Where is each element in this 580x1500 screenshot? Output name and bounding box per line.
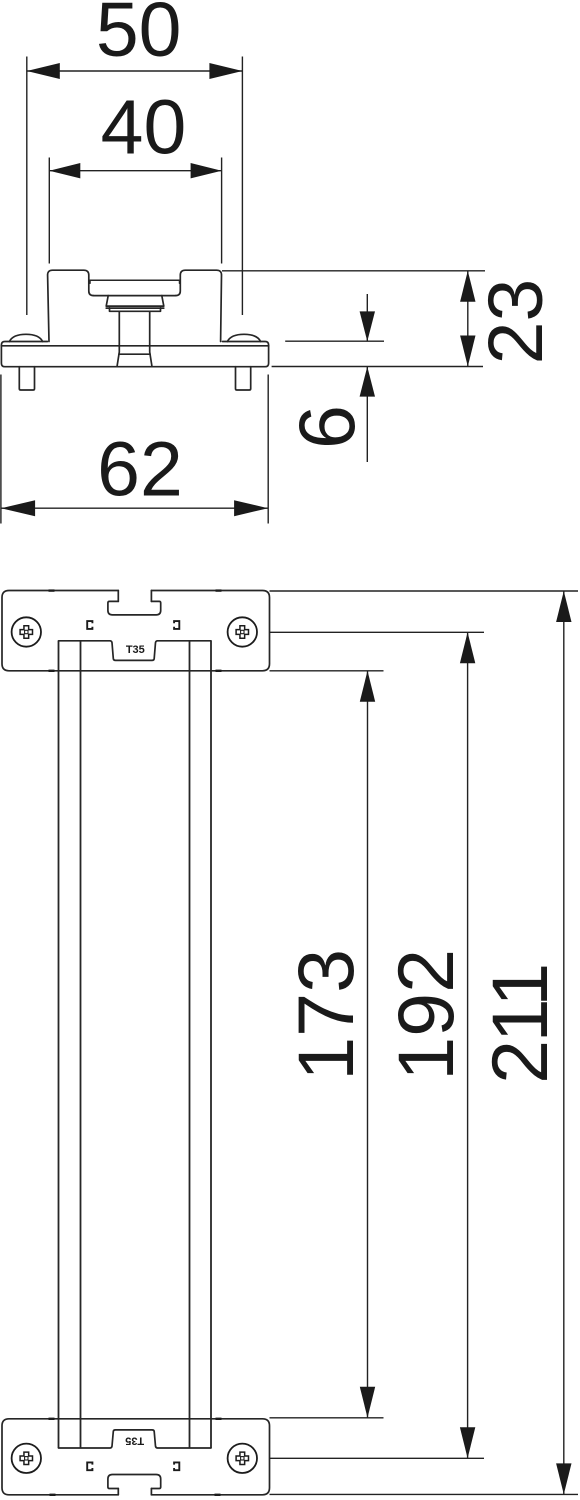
ext line 192 bottom (270, 1457, 485, 1459)
channel top edge line (89, 280, 179, 283)
dim line 211 (563, 591, 565, 1494)
tab recess (108, 601, 161, 615)
dim line 40 (49, 170, 221, 172)
dim line 50 (27, 70, 243, 72)
ext line 50 right (241, 57, 243, 316)
ext line 211 top (270, 590, 579, 592)
base plate outline (1, 342, 268, 367)
tab recess bottom (108, 1475, 161, 1489)
arrowhead 62 right (234, 500, 268, 516)
top plate outline (gap in top edge for tab neck) (2, 591, 270, 671)
svg-text:23: 23 (473, 279, 559, 365)
tab neck lines (118, 591, 151, 602)
svg-text:211: 211 (475, 965, 564, 1083)
svg-text:6: 6 (282, 405, 371, 449)
dim line 62 (1, 507, 268, 509)
arrowhead 173 top (360, 671, 375, 702)
hat cutout line with trapezoid dip (59, 641, 212, 661)
stem (117, 311, 152, 366)
arrowhead 23 bottom (460, 336, 475, 367)
screw right (228, 617, 257, 646)
svg-text:40: 40 (101, 85, 187, 171)
channel floor (94, 295, 176, 297)
rail right inner fold line (189, 641, 191, 1448)
bracket mark bottom left (87, 1462, 92, 1470)
arrowhead 50 left (27, 63, 60, 79)
svg-text:50: 50 (96, 0, 182, 73)
svg-text:173: 173 (281, 949, 370, 1081)
ext line 211 bottom (270, 1493, 579, 1495)
ext line 50 left (26, 57, 28, 316)
dim line 173 (367, 671, 369, 1418)
screw dome right (227, 334, 260, 341)
right leg (236, 367, 251, 390)
left leg (19, 367, 34, 390)
left hump (48, 270, 94, 341)
arrowhead 40 right (191, 163, 222, 178)
arrowhead 173 bottom (360, 1387, 375, 1418)
plate top surface line (1, 345, 268, 347)
dim line 23 (467, 271, 469, 367)
screw bottom right (228, 1444, 257, 1473)
ext line 40 left (48, 158, 50, 264)
ext line 23/6 bottom (272, 366, 483, 368)
dim line 192 (467, 632, 469, 1458)
ext line 192 top (270, 631, 485, 633)
arrowhead 6 bottom (points up) (360, 367, 375, 397)
bracket mark bottom right (174, 1462, 179, 1470)
svg-text:62: 62 (97, 427, 183, 513)
mould tick marks top plate (49, 589, 222, 672)
ext line 23 top (222, 270, 485, 272)
arrowhead 192 top (460, 632, 475, 663)
arrowhead 50 right (209, 63, 242, 79)
ext line 62 left (0, 375, 2, 524)
stem inner line (119, 353, 150, 355)
bottom plate outline (gap in bottom edge for tab neck) (2, 1419, 270, 1495)
arrowhead 6 top (points down) (360, 311, 375, 341)
ext line 40 right (221, 158, 223, 264)
screw dome left (9, 334, 42, 341)
dim line 6 upper leader (366, 294, 368, 342)
arrowhead 211 bottom (556, 1463, 571, 1494)
bracket mark left (87, 621, 92, 629)
arrowhead 211 top (556, 591, 571, 622)
mould tick marks bottom plate (49, 1418, 222, 1496)
ext line 62 right (267, 375, 269, 524)
pedestal block (106, 296, 164, 309)
rail left outer edge line (58, 641, 60, 1448)
ext line 6 top (285, 340, 384, 342)
arrowhead 192 bottom (460, 1427, 475, 1458)
rail right outer edge line (210, 641, 212, 1448)
arrowhead 23 top (460, 271, 475, 302)
screw left (12, 617, 41, 646)
pedestal layer2 (110, 308, 161, 311)
ext line 173 bottom (270, 1417, 384, 1419)
ext line 173 top (270, 670, 384, 672)
hat cutout line bottom with trapezoid dip (59, 1430, 212, 1448)
tab neck lines bottom (118, 1489, 151, 1495)
right hump (176, 270, 222, 341)
screw bottom left (12, 1444, 41, 1473)
bracket mark right (174, 621, 179, 629)
svg-text:T35: T35 (125, 1434, 144, 1446)
rail left inner fold line (80, 641, 82, 1448)
svg-text:T35: T35 (126, 644, 145, 656)
svg-text:192: 192 (381, 949, 470, 1081)
arrowhead 40 left (49, 163, 80, 178)
dim line 6 lower leader (366, 367, 368, 463)
arrowhead 62 left (1, 500, 35, 516)
